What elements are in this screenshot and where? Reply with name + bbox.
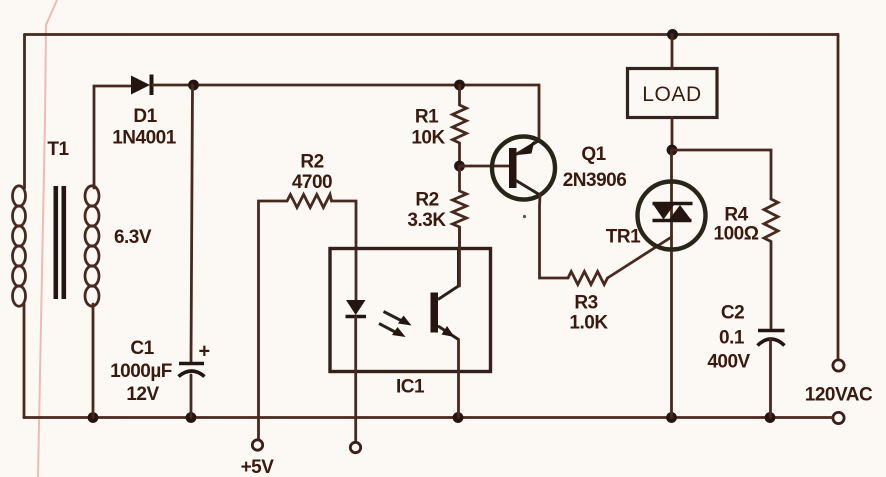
svg-text:400V: 400V [707,352,750,373]
wire R2 to IC1 LED anode [332,201,357,300]
svg-text:3.3K: 3.3K [407,210,446,231]
svg-text:LOAD: LOAD [642,83,702,106]
load box [628,69,718,118]
light arrows inside IC1 [379,312,412,338]
wire C2 bottom [769,339,772,418]
svg-text:T1: T1 [47,139,69,160]
resistor R4 100 ohm [764,199,778,328]
wire Q1 collector down [540,195,569,278]
wire TR1 vertical [670,150,673,418]
junction dot IC1 emitter node [453,412,464,423]
resistor R3 1.0K [568,272,608,285]
svg-text:R1: R1 [415,107,439,128]
svg-text:C2: C2 [721,303,744,324]
wire node to R4 [672,150,771,199]
terminal +5V [252,440,262,450]
svg-text:100Ω: 100Ω [714,224,759,245]
transformer T1 core [54,186,59,299]
stray mark [523,215,526,218]
wire top rail [25,33,839,36]
svg-text:TR1: TR1 [606,227,641,248]
junction dot R4 node [667,145,678,156]
wire bottom rail [24,416,833,419]
svg-text:6.3V: 6.3V [114,227,152,248]
svg-text:+: + [199,341,210,363]
svg-text:C1: C1 [130,338,154,359]
wire load top [671,35,674,69]
svg-text:10K: 10K [411,128,445,149]
wire C1 branch [191,85,193,418]
LED inside IC1 [346,300,366,315]
wire secondary top [94,86,130,188]
svg-text:+5V: +5V [241,457,275,477]
transformer T1 primary coil [13,186,26,306]
svg-text:4700: 4700 [292,172,332,193]
capacitor C2 [758,329,785,333]
terminal 120VAC lower [833,412,844,423]
svg-text:R2: R2 [415,190,438,211]
wire base to Q1 [461,165,509,168]
svg-text:2N3906: 2N3906 [563,170,627,191]
terminal 120VAC upper [833,360,844,371]
transformer T1 secondary coil [85,186,99,306]
resistor R1 10K [453,85,467,161]
svg-text:R2: R2 [300,152,323,173]
junction dot base node [454,161,465,172]
svg-text:Q1: Q1 [581,144,606,165]
phototransistor inside IC1 [431,249,459,340]
resistor R2 4700 [287,195,332,208]
junction dot top rail [667,29,678,40]
svg-text:R4: R4 [724,205,748,226]
junction dot TR1 bottom [666,412,677,423]
junction dot secondary bottom [88,412,99,423]
capacitor C1 [179,362,204,366]
wire secondary rail to Q1 emitter [153,85,539,141]
resistor R2 3.3K [453,166,467,249]
terminal IC1 LED cathode [350,442,360,452]
wire load bottom [671,118,674,151]
svg-text:1000µF: 1000µF [110,361,172,382]
svg-text:120VAC: 120VAC [805,385,873,406]
wire R3 to TR1 gate [608,237,672,278]
diode D1 [131,76,150,95]
wire LED cathode to terminal [354,317,357,442]
transistor Q1 2N3906 [492,137,555,200]
wire R2 to +5V terminal [259,201,288,439]
triac TR1 [638,182,706,250]
junction dot C1 bottom [186,412,197,423]
wire right side to 120VAC [837,35,840,360]
junction dot R1 top [454,80,465,91]
wire phototransistor emitter down [457,340,460,418]
wire left primary side [23,35,26,418]
wire R2 3.3K to phototransistor collector [458,227,461,286]
wire secondary bottom [92,304,95,418]
svg-text:12V: 12V [126,384,159,405]
svg-text:0.1: 0.1 [719,328,745,349]
svg-text:1.0K: 1.0K [569,313,608,334]
svg-text:1N4001: 1N4001 [112,128,176,149]
svg-text:IC1: IC1 [396,377,425,398]
junction dot after D1 [188,80,199,91]
junction dot C2 bottom [765,412,776,423]
svg-text:R3: R3 [574,293,597,314]
optocoupler IC1 box [330,249,491,372]
svg-text:D1: D1 [133,106,157,127]
